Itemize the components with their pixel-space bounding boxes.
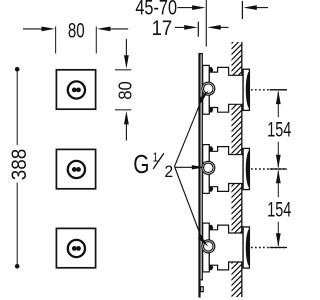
valve 3 flange column: [203, 223, 210, 272]
dim 388 line lower: [16, 183, 18, 267]
svg-text:154: 154: [267, 197, 291, 221]
valve 1 cap: [243, 69, 249, 110]
dim 154 lower: top arrow: [276, 170, 281, 184]
valve 1 flange column: [203, 65, 210, 114]
dim 388 top dot: [15, 67, 20, 72]
dim height-80 top arrow: [125, 39, 127, 56]
dim 17 right arrow: [220, 26, 228, 28]
plate bottom edge: [201, 279, 203, 281]
leader to valve 2: [175, 166, 194, 168]
front plate 3: [56, 228, 95, 267]
dim 154 upper: top arrow: [276, 91, 281, 105]
dim width-80 left extension line: [55, 27, 57, 54]
valve 1 top screw: [209, 68, 213, 73]
valve 3 cap dome profile: [246, 230, 248, 265]
wall finished-surface line: [241, 42, 243, 297]
dim 388 line upper: [16, 69, 18, 145]
plate top edge: [198, 53, 203, 55]
valve 1 inlet circle: [202, 82, 215, 95]
dim 45-70 right tick: [241, 1, 243, 19]
valve 2 cap dome profile: [246, 152, 248, 187]
front plate 1: [56, 70, 95, 109]
valve 3 inlet circle: [202, 240, 215, 253]
valve 2 bottom screw: [209, 186, 213, 191]
valve 2 flange column: [203, 145, 210, 194]
valve 1 cap dome profile: [246, 72, 248, 107]
valve 1 centerline (dotted): [251, 89, 287, 91]
valve 2 cap: [243, 148, 249, 189]
leader to valve 1: [175, 100, 202, 167]
dim width-80 left arrow: [23, 28, 43, 30]
svg-text:17: 17: [152, 16, 173, 40]
dim height-80 bottom arrow: [125, 124, 127, 140]
dim width-80 right arrow: [110, 28, 128, 30]
valve 2 top screw: [209, 147, 213, 152]
svg-text:154: 154: [267, 117, 291, 141]
svg-text:80: 80: [115, 81, 136, 100]
mounting plate rear line: [201, 53, 203, 280]
valve 1 body: [209, 67, 243, 112]
mounting rail (bar): [198, 53, 200, 298]
dim width-80 right extension line: [95, 27, 97, 54]
bottom fixing screw block: [201, 287, 204, 292]
svg-text:388: 388: [7, 149, 31, 181]
valve 2 body: [209, 147, 243, 192]
dim 45-70 extension line: [205, 0, 207, 47]
svg-text:G: G: [133, 149, 149, 179]
handle 2: [68, 161, 85, 178]
front plate 2: [56, 149, 95, 188]
valve 2 centerline (dotted): [251, 168, 287, 170]
dim 17 left arrow: [175, 26, 185, 28]
dim 154 upper: bottom arrow: [276, 155, 281, 169]
dim 17 tick: [197, 22, 199, 37]
svg-text:2: 2: [164, 163, 173, 181]
valve 3 body: [209, 225, 243, 270]
dim 154 lower: bottom arrow: [276, 233, 281, 247]
leader to valve 3: [175, 167, 202, 237]
dim height-80 top tick: [115, 69, 131, 71]
handle 1: [68, 81, 85, 98]
dim 154 upper: line segments: [277, 92, 279, 118]
dim 45-70 left arrow: [177, 7, 192, 9]
wall section hatching: [232, 42, 243, 297]
valve 3 centerline (dotted): [251, 247, 287, 249]
dim height-80 bottom tick: [115, 109, 131, 111]
handle 3: [68, 240, 85, 257]
valve 1 bottom screw: [209, 107, 213, 112]
valve 3 cap: [243, 227, 249, 268]
dim 154 lower: line segments: [277, 171, 279, 198]
valve 2 inlet circle: [202, 161, 215, 174]
valve 3 top screw: [209, 225, 213, 230]
svg-text:80: 80: [68, 18, 85, 42]
valve 3 bottom screw: [209, 265, 213, 270]
dim 388 bottom dot: [15, 264, 20, 269]
dim 45-70 right arrow: [256, 7, 268, 9]
